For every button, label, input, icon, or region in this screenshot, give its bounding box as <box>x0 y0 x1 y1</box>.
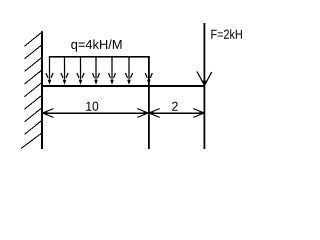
F force line / right extension line <box>204 23 206 149</box>
hatch 4 <box>25 70 43 85</box>
left arrow of 2 (points left, tip at x=148.5) <box>149 109 160 113</box>
hatch 1 <box>25 32 43 47</box>
distributed load arrows <box>46 57 152 85</box>
load arrow 4 <box>92 57 99 85</box>
distributed load top line <box>49 56 150 58</box>
hatch 6 <box>25 95 43 110</box>
extension line at x=148.5 (also last load arrow shaft) <box>148 57 150 149</box>
right arrow of 10 (points right, tip at x=148.5) <box>137 109 148 113</box>
load arrow 5 <box>108 57 115 85</box>
dimension line y=113 <box>42 113 205 115</box>
hatch 8 <box>25 120 43 134</box>
load arrow 3 <box>77 57 84 85</box>
hatch 2 <box>25 44 43 59</box>
load arrow 1 <box>46 57 53 85</box>
hatch 5 <box>25 82 43 97</box>
label q=4kH/M <box>71 39 121 51</box>
wall hatching <box>21 32 43 149</box>
wall line <box>41 31 43 149</box>
F arrowhead <box>197 72 212 86</box>
beam <box>41 85 205 87</box>
load arrow 2 <box>61 57 68 85</box>
load arrow 7 <box>145 73 152 85</box>
hatch 9 <box>21 133 43 149</box>
load arrow 6 <box>125 57 132 85</box>
label 10 <box>86 102 98 111</box>
dimension arrows <box>42 109 204 118</box>
left arrow of 10 (points left, tip at wall) <box>43 109 54 113</box>
label 2 <box>172 102 178 111</box>
hatch 3 <box>25 57 43 72</box>
label F=2kH <box>211 29 242 38</box>
hatch 7 <box>25 107 43 122</box>
right arrow of 2 (points right, tip at x=204.5) <box>193 109 204 113</box>
